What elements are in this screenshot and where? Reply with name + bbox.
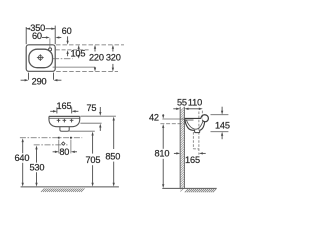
dim 705 arrows: [91, 132, 93, 136]
side front-rim extension line: [211, 114, 229, 116]
dim 165 side line and arrows: [174, 152, 177, 154]
side floor line: [162, 187, 216, 189]
plan view drain with cross: [37, 54, 44, 61]
dim 220 arrows: [94, 45, 96, 49]
front siphon diamond mark: [62, 142, 65, 145]
dim 290 extension lines: [28, 73, 30, 80]
washbasin plan view outline 350x320: [26, 45, 55, 72]
svg-text:60: 60: [32, 31, 42, 41]
side siphon centerline dashed: [198, 112, 200, 155]
plan top edge extension dashed: [56, 44, 124, 46]
side basin rim line: [185, 117, 201, 119]
plan view bowl oval: [29, 49, 53, 67]
plan bottom edge extension dashed: [56, 71, 118, 73]
plan view faucet hole: [49, 48, 52, 51]
svg-text:850: 850: [105, 151, 120, 161]
svg-text:530: 530: [29, 163, 44, 173]
side wall lines: [179, 107, 181, 189]
front view drain tab: [60, 127, 69, 132]
dim 42 down arrow: [162, 114, 164, 115]
svg-text:60: 60: [62, 26, 72, 36]
dim 145 arrows: [221, 107, 223, 112]
svg-text:80: 80: [59, 147, 69, 157]
side basin drain stub: [195, 130, 200, 132]
side bottom extension line: [211, 131, 229, 133]
front view rim second line: [49, 117, 79, 119]
svg-text:42: 42: [149, 112, 159, 122]
dim 105 arrows: [78, 48, 80, 50]
svg-text:810: 810: [154, 148, 169, 158]
svg-text:220: 220: [89, 52, 104, 62]
dim 640 arrows: [22, 138, 24, 142]
dim 350 line and arrows: [26, 28, 30, 30]
front floor line: [21, 186, 119, 188]
dim 80 extension lines: [58, 140, 60, 154]
front fixing bolt centerline: [20, 137, 82, 139]
svg-text:75: 75: [86, 103, 96, 113]
svg-text:290: 290: [32, 77, 47, 87]
front rim extension line: [80, 115, 116, 117]
dim 350 extension lines: [25, 27, 27, 44]
dim 75 arrows: [99, 107, 101, 112]
svg-text:55: 55: [177, 98, 187, 108]
dim 80 arrows: [53, 151, 55, 153]
dim 60h line and arrows: [42, 37, 46, 39]
front tab bottom extension: [69, 130, 95, 132]
front view tap holes (3 crosses): [58, 119, 60, 123]
plan drain centerline: [53, 58, 73, 60]
side tap hole dashed line: [201, 111, 203, 120]
front fixing bolt squares: [58, 137, 60, 139]
svg-text:705: 705: [85, 155, 100, 165]
side bolt line dashed: [160, 123, 184, 125]
side basin outer back and bottom: [185, 119, 195, 130]
side siphon pipe dashed: [192, 132, 194, 149]
front tap-hole line: [80, 122, 101, 124]
dim 850 arrows: [113, 117, 115, 121]
plan line at bowl bottom: [53, 66, 95, 68]
dim 810 arrows: [162, 124, 164, 128]
svg-text:165: 165: [185, 155, 200, 165]
side wall hatching: [180, 107, 184, 191]
dim 165 extension lines: [56, 107, 58, 113]
plan faucet centerline dashed: [56, 49, 89, 51]
svg-text:105: 105: [70, 49, 85, 59]
dim 290 arrows: [21, 79, 25, 81]
dim 60v arrows: [67, 36, 69, 41]
front view body outline: [49, 116, 80, 126]
side basin inner bowl: [186, 120, 203, 130]
svg-text:165: 165: [57, 101, 72, 111]
side basin front rim hook: [201, 115, 209, 122]
side rim extension line: [162, 118, 184, 120]
dim 165 arrows: [50, 110, 53, 112]
dim 530 arrows: [35, 146, 37, 150]
svg-text:640: 640: [14, 153, 29, 163]
side basin outer underside right: [200, 122, 205, 130]
front view rim top line: [49, 115, 80, 117]
svg-text:110: 110: [188, 98, 202, 108]
side floor hatching: [185, 189, 216, 192]
front floor hatching: [41, 188, 85, 192]
svg-text:145: 145: [215, 120, 230, 130]
front siphon centerline: [34, 144, 68, 146]
dim 320 arrows: [112, 45, 114, 49]
dim 55 and 110 line and arrows: [173, 108, 176, 110]
dim 60h faucet extension: [49, 38, 51, 47]
svg-text:320: 320: [106, 52, 121, 62]
